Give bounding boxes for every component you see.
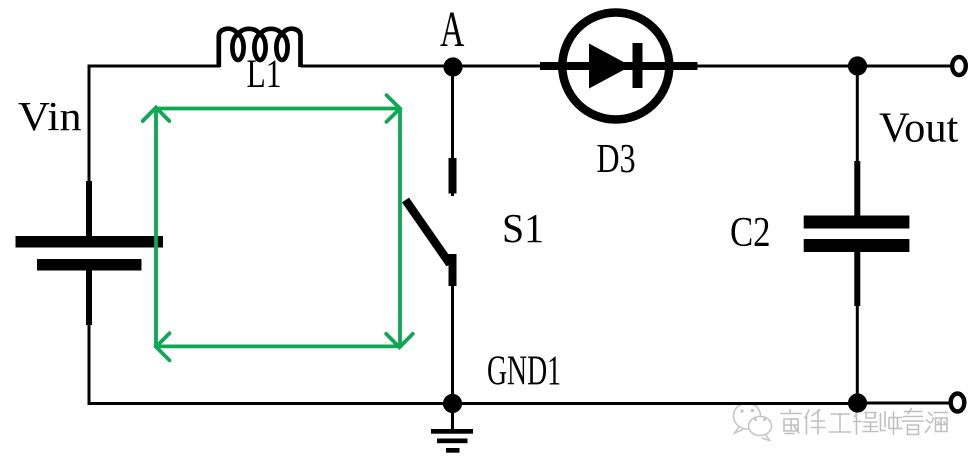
diode D3 cathode bar [633,43,643,88]
node junction dot bottom-right [848,393,867,412]
svg-text:S1: S1 [502,205,544,251]
wire diode to output junction [697,65,857,68]
svg-text:Vin: Vin [18,94,82,139]
svg-text:Vout: Vout [879,104,959,151]
green arrowhead bottom-left (pointing left) [156,333,170,360]
capacitor C2 bottom lead (thick) [854,252,860,306]
diode D3 anode stub [540,62,560,70]
battery Vin bottom lead (thick) [86,270,92,325]
diode D3 circle [562,13,669,120]
battery Vin top lead (thick) [86,181,92,237]
wire top-left horizontal (Vin to L1) [88,65,221,68]
label D3 [597,135,636,181]
output terminal bottom (open circle) [951,394,965,412]
switch S1 lower contact (thick) [449,254,457,286]
svg-text:L1: L1 [247,51,282,95]
wire bottom horizontal left (to GND junction) [88,402,453,405]
ground symbol bar 3 [446,448,460,453]
svg-text:D3: D3 [597,135,636,181]
label L1 [247,51,282,95]
diode D3 triangle [589,44,631,89]
inductor L1 coil [219,29,301,67]
label S1 [502,205,544,251]
node A junction dot [443,57,462,76]
capacitor C2 top lead (thick) [854,161,860,216]
diode D3 cathode stub [671,62,698,70]
capacitor C2 bottom plate [804,239,910,252]
green arrowhead top-right (pointing right) [387,95,401,122]
battery Vin positive plate (long bar) [16,236,164,248]
green current loop left line (upward) [154,109,158,348]
svg-text:GND1: GND1 [487,346,561,393]
wire junction to output terminal bottom [857,402,949,405]
watermark logo (chat bubbles) [734,403,772,441]
battery Vin negative plate (short bar) [37,259,142,271]
switch S1 upper contact (thick) [449,158,457,194]
ground symbol stem [451,404,454,430]
switch S1 wire to GND junction [451,284,454,404]
switch S1 wire from node A [451,67,454,196]
green current loop right line (downward) [398,109,402,348]
output terminal top (open circle) [952,57,966,75]
watermark text 硬件工程师看海 (simulated strokes) [781,409,948,435]
node GND1 junction dot [443,394,462,413]
capacitor C2 wire from top junction [856,66,859,163]
label A [440,2,464,57]
wire node A to diode [453,65,545,68]
label C2 [730,209,771,256]
wire left vertical (Vin battery top lead riser) [88,65,91,183]
node junction dot top-right [848,56,867,75]
svg-text:C2: C2 [730,209,771,256]
green current loop bottom line (leftward) [156,344,400,348]
capacitor C2 top plate [804,216,910,229]
ground symbol bar 2 [437,439,468,444]
svg-text:A: A [440,2,464,57]
label Vin [18,94,82,139]
wire battery to bottom-left corner [88,325,91,404]
label GND1 [487,346,561,393]
diode D3 internal wire [562,62,670,70]
switch S1 blade (open) [406,200,451,264]
capacitor C2 wire to bottom junction [856,306,859,404]
wire L1 to node A [301,65,453,68]
green arrowhead top-left (pointing up) [143,108,170,122]
label Vout [879,104,959,151]
ground symbol bar 1 [431,429,473,434]
green arrowhead bottom-right (pointing down) [386,334,413,348]
green current loop top line (rightward) [156,107,400,111]
wire bottom horizontal right [452,402,857,405]
wire junction to output terminal [857,65,950,68]
